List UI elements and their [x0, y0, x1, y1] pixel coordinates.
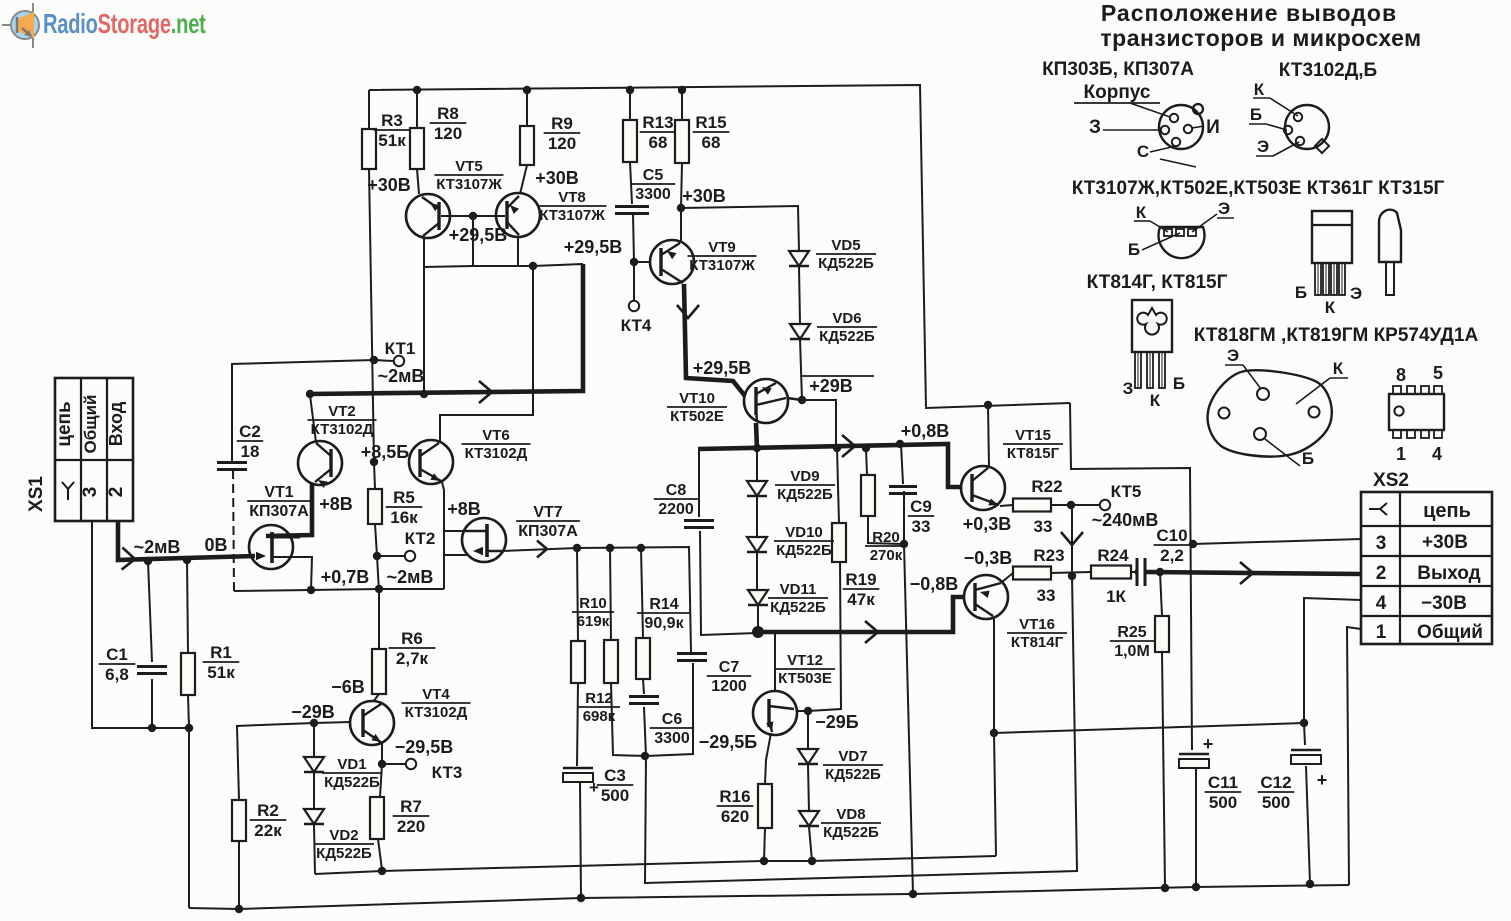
svg-text:С: С — [1137, 142, 1149, 161]
svg-text:Корпус: Корпус — [1084, 82, 1151, 103]
svg-text:−29Б: −29Б — [815, 712, 859, 732]
wire R24 to C10 — [1131, 571, 1135, 573]
resistor R19 — [832, 523, 879, 609]
svg-text:3300: 3300 — [654, 730, 690, 747]
wire divider row — [577, 547, 691, 652]
svg-text:−0,8В: −0,8В — [910, 574, 959, 594]
svg-text:Общий: Общий — [81, 395, 100, 454]
svg-text:1200: 1200 — [711, 678, 747, 695]
svg-text:КТ503Е: КТ503Е — [778, 670, 832, 687]
transistor VT10 — [667, 379, 788, 425]
capacitor C7 — [677, 654, 751, 696]
svg-text:КТ3102Д: КТ3102Д — [405, 704, 468, 721]
svg-text:R23: R23 — [1033, 546, 1064, 565]
wire KT2 branch — [377, 555, 404, 557]
svg-text:47к: 47к — [847, 590, 875, 609]
svg-text:КТ3107Ж: КТ3107Ж — [539, 207, 605, 224]
capacitor C5 — [615, 167, 675, 214]
svg-text:VT8: VT8 — [558, 189, 586, 206]
svg-text:C2: C2 — [239, 422, 261, 441]
transistor VT9 — [650, 239, 757, 284]
svg-text:КТ5: КТ5 — [1111, 482, 1142, 501]
svg-text:С7: С7 — [719, 659, 740, 676]
svg-text:VT10: VT10 — [679, 390, 715, 407]
transistor VT6 — [409, 427, 531, 484]
transistor VT2 — [298, 403, 377, 488]
transistor VT1 (FET KP307A) — [247, 484, 311, 569]
svg-text:КТ2: КТ2 — [405, 529, 436, 548]
svg-text:~2мВ: ~2мВ — [378, 366, 425, 386]
wire C11 lower lead to ground rail — [1195, 768, 1197, 887]
svg-text:~2мВ: ~2мВ — [134, 537, 181, 557]
capacitor C6 — [629, 697, 694, 748]
wire C8 upper lead — [698, 449, 700, 517]
RadioStorage.net logo — [2, 3, 39, 48]
wire top +30V bus — [369, 85, 1070, 408]
svg-text:−6В: −6В — [331, 677, 365, 697]
wire VT4 base — [314, 722, 351, 723]
wire KT5 branch — [1072, 504, 1099, 506]
diode VD5 — [789, 237, 876, 272]
svg-text:R8: R8 — [437, 104, 459, 123]
wire lower driver bus y632 (thick) — [757, 597, 963, 632]
svg-text:цепь: цепь — [54, 401, 75, 446]
svg-text:1: 1 — [1376, 622, 1387, 643]
wire +0.7V line — [234, 589, 444, 591]
svg-text:R12: R12 — [585, 690, 613, 707]
wire VD9-VD10 — [756, 497, 758, 537]
svg-text:КД522Б: КД522Б — [316, 845, 372, 862]
svg-text:Б: Б — [1250, 105, 1262, 124]
svg-text:+29,5В: +29,5В — [564, 237, 623, 257]
wire R20 bottom jog — [868, 516, 902, 544]
wire output node vertical — [1071, 505, 1073, 576]
svg-text:Б: Б — [1302, 449, 1314, 468]
svg-text:500: 500 — [1262, 793, 1290, 812]
svg-text:Общий: Общий — [1417, 622, 1483, 643]
svg-text:К: К — [1150, 391, 1161, 410]
pinout package KT818 TO-3 — [1208, 346, 1348, 468]
test point KT2 — [405, 529, 436, 561]
svg-text:К: К — [1333, 359, 1344, 378]
diode VD7 — [798, 748, 883, 783]
svg-text:VD7: VD7 — [838, 748, 867, 765]
svg-text:68: 68 — [649, 133, 668, 152]
svg-text:2: 2 — [106, 487, 127, 498]
svg-text:VT1: VT1 — [264, 484, 293, 501]
svg-text:КТ3107Ж: КТ3107Ж — [689, 257, 755, 274]
wire KT3 branch — [382, 763, 405, 765]
test point KT4 — [621, 301, 652, 335]
svg-text:C9: C9 — [910, 497, 932, 516]
svg-text:68: 68 — [702, 133, 721, 152]
svg-text:−29,5Б: −29,5Б — [699, 732, 758, 752]
resistor R3 — [362, 111, 410, 169]
svg-text:270к: 270к — [870, 547, 903, 564]
wire R14 bottom to C6 — [643, 679, 644, 694]
svg-text:1,0М: 1,0М — [1114, 643, 1150, 660]
svg-text:КТ3102Д: КТ3102Д — [311, 421, 374, 438]
svg-text:R15: R15 — [695, 113, 726, 132]
pinout package KT814 — [1123, 300, 1185, 410]
wire VT12 right lead — [796, 710, 808, 712]
pinout package KT3107 bottom view — [1128, 199, 1234, 259]
wire base node to R5 — [374, 462, 375, 489]
svg-text:R22: R22 — [1031, 477, 1062, 496]
wire VD1 top — [313, 723, 315, 757]
resistor R15 — [675, 113, 729, 163]
svg-text:R6: R6 — [401, 629, 423, 648]
svg-text:R16: R16 — [719, 787, 750, 806]
wire R7 bottom — [378, 839, 382, 870]
svg-text:~2мВ: ~2мВ — [387, 567, 434, 587]
svg-text:КТ3102Д,Б: КТ3102Д,Б — [1279, 60, 1377, 81]
svg-text:К: К — [1325, 298, 1336, 317]
wire C2 top link — [231, 360, 374, 364]
svg-text:0В: 0В — [204, 535, 227, 555]
svg-text:120: 120 — [434, 124, 462, 143]
svg-text:R20: R20 — [872, 529, 900, 546]
svg-text:500: 500 — [1209, 793, 1237, 812]
wire VD8 bottom to -30V rail — [809, 827, 812, 861]
svg-text:+30В: +30В — [367, 175, 411, 195]
svg-text:З: З — [1123, 379, 1134, 398]
capacitor C10 — [1137, 526, 1190, 586]
svg-text:620: 620 — [721, 807, 749, 826]
svg-text:1: 1 — [1396, 444, 1406, 464]
svg-text:ХS1: ХS1 — [26, 476, 47, 512]
svg-text:C11: C11 — [1208, 773, 1238, 792]
wire feedback loop — [645, 576, 1077, 883]
svg-text:Вход: Вход — [106, 401, 126, 446]
wire VT16 collector down — [994, 618, 996, 856]
capacitor C9 — [889, 487, 934, 537]
svg-text:−30В: −30В — [1421, 593, 1467, 614]
svg-text:R9: R9 — [551, 114, 573, 133]
wire R13 top — [629, 90, 631, 120]
wire R16 bottom — [764, 828, 765, 861]
resistor R25 — [1110, 616, 1169, 660]
transistor VT12 — [753, 652, 835, 735]
capacitor C12 (electrolytic) — [1258, 750, 1328, 812]
svg-text:+30В: +30В — [1422, 532, 1468, 553]
wire R22 to output node — [1051, 504, 1072, 506]
transistor VT16 — [964, 575, 1067, 651]
svg-text:R3: R3 — [381, 111, 403, 130]
svg-text:2,7к: 2,7к — [396, 649, 429, 668]
svg-text:1К: 1К — [1106, 587, 1126, 606]
wire VT4 emitter to KT3 node — [380, 742, 382, 797]
wire node to test point KT4 — [633, 262, 635, 300]
svg-text:Б: Б — [1295, 283, 1307, 302]
svg-text:+29В: +29В — [809, 376, 853, 396]
svg-text:Э: Э — [1257, 137, 1269, 156]
svg-text:33: 33 — [912, 517, 931, 536]
svg-text:КП307А: КП307А — [249, 503, 309, 520]
wire VT7 drain to divider node — [503, 548, 577, 551]
resistor R9 — [520, 114, 580, 165]
svg-text:R5: R5 — [393, 488, 415, 507]
label Korpus — [1074, 82, 1160, 103]
diode VD2 — [304, 809, 374, 862]
resistor R12 — [578, 640, 620, 725]
wire VT1 drain (thick) — [266, 484, 312, 536]
svg-text:+30В: +30В — [682, 186, 726, 206]
svg-text:16к: 16к — [390, 508, 418, 527]
wire C9 bottom long — [904, 491, 913, 894]
svg-text:8: 8 — [1396, 365, 1406, 385]
voltage labels — [134, 168, 1159, 757]
wire VT8 lower lead — [517, 236, 519, 267]
svg-text:VT7: VT7 — [533, 504, 562, 521]
svg-text:З: З — [1089, 117, 1101, 138]
connector XS2 — [1361, 470, 1492, 644]
wire VD2 bottom to -30V rail — [314, 825, 315, 874]
svg-text:КТ502Е: КТ502Е — [670, 408, 724, 425]
transistor VT15 — [961, 427, 1063, 510]
capacitor C3 (electrolytic) — [563, 766, 633, 805]
wire VT5 collector to input node — [423, 237, 425, 394]
svg-text:VD9: VD9 — [790, 468, 819, 485]
wire upper driver bus y448 (thick) — [698, 444, 961, 487]
wire +30V to VD5 chain — [681, 206, 799, 251]
resistor R7 — [370, 797, 429, 839]
resistor R14 — [636, 596, 691, 679]
pinout package KT315 — [1379, 210, 1401, 295]
svg-text:Выход: Выход — [1417, 563, 1480, 584]
wire VT16 emitter to R23 — [1002, 573, 1013, 582]
capacitor C2 — [217, 422, 263, 470]
wire R2 top jog — [236, 723, 314, 726]
wire R1 leads — [187, 560, 188, 653]
resistor R6 — [372, 629, 435, 694]
svg-text:КТ3107Ж: КТ3107Ж — [436, 176, 502, 193]
wire +29V node to emitter branch — [802, 400, 836, 447]
wire XS2 pin4 branch — [1304, 598, 1361, 723]
wire right supply branch — [1070, 403, 1192, 750]
test point KT5 — [1100, 482, 1142, 510]
wire R19 vertical top — [837, 448, 839, 523]
svg-text:VT5: VT5 — [455, 158, 483, 175]
wire R25 top — [1160, 572, 1162, 616]
connector XS1 — [26, 378, 133, 521]
svg-text:120: 120 — [548, 134, 576, 153]
svg-text:ХS2: ХS2 — [1373, 470, 1409, 491]
svg-text:КТ818ГМ ,КТ819ГМ КР574УД1А: КТ818ГМ ,КТ819ГМ КР574УД1А — [1194, 325, 1479, 346]
wire VD7 top — [807, 711, 809, 749]
wire VT5-VT8 base tie — [441, 215, 505, 217]
svg-text:Б: Б — [1128, 240, 1140, 259]
wire VD1-VD2 — [313, 773, 315, 810]
resistor R10 — [571, 595, 614, 683]
svg-text:КП307А: КП307А — [518, 523, 578, 540]
svg-text:VT12: VT12 — [787, 652, 823, 669]
wire base tie down to emitter row — [472, 216, 474, 266]
svg-text:+: + — [589, 778, 599, 797]
svg-text:C5: C5 — [643, 167, 664, 184]
wire VD11 bottom — [757, 606, 759, 632]
svg-text:+8В: +8В — [319, 494, 353, 514]
svg-text:90,9к: 90,9к — [644, 615, 684, 632]
resistor R13 — [623, 113, 676, 162]
wire C8 lower lead — [700, 531, 757, 635]
svg-text:R13: R13 — [642, 113, 673, 132]
resistor R22 — [1013, 477, 1063, 536]
svg-text:R24: R24 — [1097, 546, 1129, 565]
transistor VT8 — [496, 189, 607, 237]
svg-text:500: 500 — [601, 786, 629, 805]
svg-text:С10: С10 — [1156, 526, 1187, 545]
svg-text:−0,3В: −0,3В — [964, 548, 1013, 568]
diode VD1 — [304, 756, 382, 791]
svg-text:VD2: VD2 — [329, 827, 358, 844]
svg-text:К: К — [1254, 80, 1265, 99]
svg-text:22к: 22к — [254, 821, 282, 840]
wire VT7 upper tap — [444, 530, 463, 532]
capacitor C8 — [654, 482, 714, 528]
svg-text:VD6: VD6 — [832, 310, 861, 327]
svg-text:Э: Э — [1350, 284, 1362, 303]
svg-text:+0,7В: +0,7В — [321, 567, 370, 587]
wire C5 bottom to VT9 base node — [633, 214, 634, 262]
svg-text:Расположение выводов: Расположение выводов — [1101, 0, 1397, 26]
wire VT15 emitter to R22 — [1000, 505, 1013, 506]
wire R12 top — [610, 548, 611, 640]
resistor R8 — [410, 104, 466, 169]
wire -30V rail — [315, 856, 996, 874]
diode VD9 — [747, 468, 835, 503]
svg-text:КТ3102Д: КТ3102Д — [465, 445, 528, 462]
wire VT12 base from bus — [774, 632, 776, 691]
svg-text:33: 33 — [1034, 517, 1053, 536]
svg-text:R7: R7 — [400, 797, 422, 816]
capacitor C1 — [99, 645, 167, 684]
svg-text:R19: R19 — [845, 570, 876, 589]
svg-text:КТ815Г: КТ815Г — [1007, 445, 1060, 462]
svg-text:51к: 51к — [378, 131, 406, 150]
wire VT2 collector bus to VT9 base (thick) — [308, 264, 583, 394]
svg-text:3: 3 — [1376, 533, 1387, 554]
wire C9 top — [901, 444, 903, 484]
pinout package KR574UD1A DIP-8 — [1389, 363, 1444, 464]
wire input common drop — [92, 521, 189, 728]
transistor VT4 — [350, 686, 471, 745]
svg-text:3: 3 — [80, 487, 101, 498]
wire VT1 source down — [272, 557, 312, 590]
svg-text:220: 220 — [397, 817, 425, 836]
svg-text:3300: 3300 — [635, 186, 671, 203]
wire VT7 lower tap — [444, 554, 467, 556]
wire R25 bottom — [1162, 652, 1165, 888]
svg-text:+: + — [1317, 770, 1328, 790]
wire C2 vertical — [231, 364, 233, 462]
svg-text:−29,5В: −29,5В — [395, 737, 454, 757]
svg-text:КТ3: КТ3 — [432, 763, 463, 782]
wire common ground rail — [189, 885, 1349, 909]
wire R8 leads — [416, 90, 418, 128]
wire VT2 collector lead — [310, 395, 316, 442]
svg-text:VT16: VT16 — [1019, 616, 1055, 633]
svg-text:+8В: +8В — [447, 499, 481, 519]
svg-text:КД522Б: КД522Б — [825, 766, 881, 783]
resistor R1 — [181, 643, 239, 695]
title: pinout info — [1100, 0, 1421, 51]
svg-text:+: + — [1203, 734, 1214, 754]
svg-text:+0,8В: +0,8В — [901, 421, 950, 441]
svg-text:4: 4 — [1432, 444, 1442, 464]
wire VD10-VD11 — [756, 553, 758, 590]
wire R13 to C5 — [630, 162, 632, 204]
svg-text:VD8: VD8 — [836, 806, 865, 823]
svg-text:+30В: +30В — [535, 168, 579, 188]
wire C12 top lead — [1304, 723, 1305, 745]
svg-text:Б: Б — [1173, 374, 1185, 393]
svg-text:VD1: VD1 — [337, 756, 366, 773]
transistor VT7 (FET KP307A) — [462, 504, 580, 562]
svg-text:R2: R2 — [257, 801, 279, 820]
wire C2 to +0.7V line (screened) — [233, 470, 234, 591]
wire R5/R6 node to R6 — [378, 592, 380, 649]
wire -30V feed line — [994, 723, 1304, 733]
diode VD8 — [799, 806, 881, 841]
wire R10 bottom to C3 — [577, 683, 578, 766]
wire VT6 emitter down — [442, 482, 444, 531]
wire VT12 emitter to R16 — [765, 733, 771, 784]
svg-text:2: 2 — [1376, 563, 1387, 584]
svg-text:цепь: цепь — [1423, 500, 1471, 522]
svg-text:C8: C8 — [666, 482, 687, 499]
svg-text:VD5: VD5 — [831, 237, 860, 254]
resistor R5 — [368, 488, 422, 527]
svg-text:VT15: VT15 — [1015, 427, 1051, 444]
wire VT15 collector — [988, 405, 989, 466]
wire VT9 emitter — [680, 208, 682, 241]
svg-text:КД522Б: КД522Б — [777, 486, 833, 503]
svg-text:R25: R25 — [1117, 624, 1146, 641]
svg-text:+29,5В: +29,5В — [693, 358, 752, 378]
wire ground drop to rail — [188, 728, 190, 908]
wire R15 leads — [681, 90, 683, 120]
wire VT10 collector (thick) — [756, 423, 757, 449]
wire VT5 lower lead — [423, 237, 425, 267]
svg-text:4: 4 — [1376, 593, 1387, 614]
diode VD10 — [747, 524, 834, 559]
svg-text:~240мВ: ~240мВ — [1092, 510, 1159, 530]
svg-text:КД522Б: КД522Б — [324, 774, 380, 791]
svg-text:−29В: −29В — [291, 702, 335, 722]
wire VT7 gate/source vertical — [443, 531, 445, 589]
svg-text:+29,5В: +29,5В — [449, 225, 508, 245]
wire C7 bottom — [646, 663, 693, 756]
svg-text:698к: 698к — [583, 708, 616, 725]
arrow on output node vertical — [1061, 532, 1083, 545]
svg-text:КП303Б, КП307А: КП303Б, КП307А — [1042, 59, 1194, 80]
svg-text:VD10: VD10 — [785, 524, 823, 541]
wire to VT6 collector — [440, 266, 533, 442]
wire XS2 pin1 branch to ground rail — [1347, 627, 1361, 885]
pinout package KP303 — [1089, 103, 1220, 167]
wire R2 bottom — [238, 841, 240, 909]
wire R20 top — [866, 448, 867, 475]
svg-text:VT4: VT4 — [422, 686, 450, 703]
wire R3 bias chain vertical — [368, 90, 370, 129]
svg-text:VD11: VD11 — [780, 581, 817, 598]
wire VT10 emitter link — [787, 398, 802, 400]
wire +30V to XS2 pin3 — [1193, 539, 1361, 544]
pinout package KT815 — [1295, 211, 1362, 317]
svg-text:КД522Б: КД522Б — [818, 255, 874, 272]
svg-text:КД522Б: КД522Б — [770, 599, 826, 616]
